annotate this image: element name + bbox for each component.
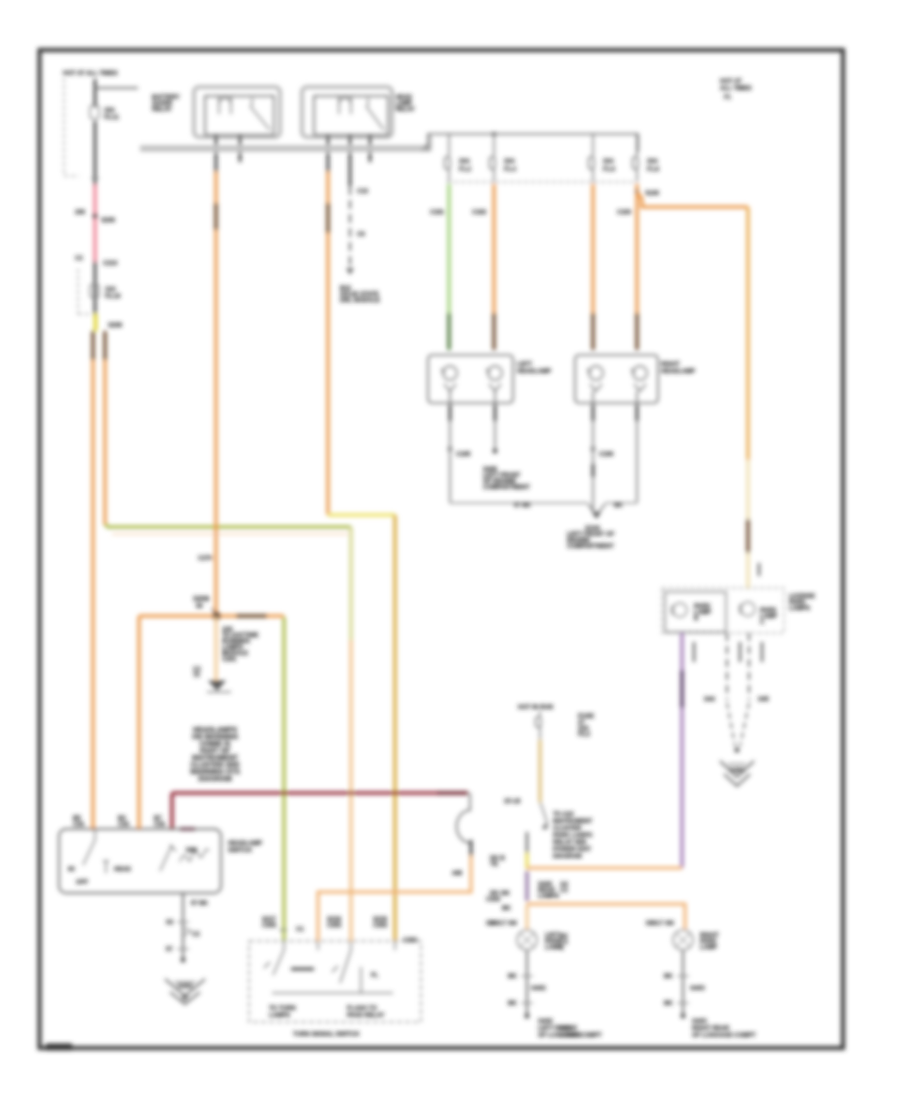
svg-text:57: 57: [166, 947, 173, 953]
headlamp switch label: [228, 841, 262, 854]
rear lamp bulb left: [671, 603, 687, 617]
svg-text:C13: C13: [357, 189, 369, 195]
yellow segment label: [490, 856, 505, 868]
svg-text:C2: C2: [75, 256, 83, 262]
right headlamp ground wire: [592, 391, 594, 512]
svg-text:06: 06: [196, 604, 203, 610]
wire green from fuse F3: [447, 184, 450, 313]
rear ground tick labels: [704, 697, 769, 703]
svg-text:HEADLAMPS: HEADLAMPS: [193, 727, 238, 734]
svg-text:C3: C3: [560, 888, 568, 894]
wire tan elbow to turn switch: [318, 856, 471, 941]
left headlamp ground dark segment: [449, 405, 452, 421]
wire yellow horizontal: [328, 513, 395, 516]
svg-text:INSTRUMENT: INSTRUMENT: [192, 755, 239, 762]
rear lamp top tick: [758, 563, 760, 576]
relay K1 coil: [219, 96, 231, 114]
relay K2 pin 85: [369, 135, 372, 162]
svg-text:C2b: C2b: [73, 822, 85, 828]
column wire into bulb: [526, 904, 529, 929]
right high ground wire: [636, 391, 638, 503]
wire tan right vertical to rear lamps: [746, 207, 749, 460]
svg-text:TO TURN: TO TURN: [269, 1006, 296, 1012]
relay K2 label: [395, 95, 415, 113]
relay K2 outer box: [302, 87, 392, 137]
ground G203 label: [178, 984, 193, 1002]
rear ground node: [735, 748, 740, 753]
switch ground node: [181, 958, 186, 963]
svg-text:F2.19: F2.19: [105, 294, 121, 300]
wire pink segment: [93, 185, 96, 261]
svg-text:4: 4: [560, 946, 564, 952]
turn switch arm left: [264, 950, 284, 975]
module text block right: [553, 812, 593, 860]
fuse F2: [90, 284, 99, 298]
module label text: [340, 286, 380, 304]
right park bulb: [673, 930, 693, 950]
svg-text:S44: S44: [704, 697, 715, 703]
svg-text:LEFT: LEFT: [517, 362, 532, 368]
svg-text:C202: C202: [373, 923, 388, 929]
svg-text:F1: F1: [724, 95, 732, 101]
turn signal switch box dashed: [249, 941, 421, 1022]
turn switch pin glyph 3: [373, 917, 388, 929]
wire tan branch to park lamps: [637, 192, 748, 207]
svg-text:BK: BK: [502, 906, 511, 912]
svg-text:DB/LT GN: DB/LT GN: [489, 921, 517, 927]
svg-text:C103: C103: [617, 210, 632, 216]
wire olive-tan vertical to turn switch: [350, 527, 353, 941]
rear ground merge: [727, 703, 749, 746]
right headlamp label: [661, 362, 695, 375]
fuse F3 label: [459, 159, 472, 173]
switch ground tick 2: [166, 947, 189, 953]
svg-text:PART OF: PART OF: [200, 748, 231, 755]
svg-text:C1: C1: [296, 927, 304, 933]
svg-text:C270: C270: [198, 556, 213, 562]
fuse box top rail: [428, 134, 638, 152]
ground run horizontal right: [605, 502, 637, 504]
svg-text:G401: G401: [730, 768, 745, 774]
fuse F7: [536, 711, 542, 740]
svg-text:S2: S2: [166, 920, 174, 926]
turn switch text right: [347, 1006, 384, 1019]
svg-text:G403: G403: [690, 986, 705, 992]
wire purple from rear lamp: [681, 633, 684, 868]
svg-text:LAMPS: LAMPS: [538, 894, 559, 900]
svg-text:C102: C102: [472, 210, 487, 216]
svg-text:BK: BK: [508, 974, 517, 980]
wire purple segment column: [525, 871, 528, 901]
wire tan from relay K1: [214, 172, 217, 616]
svg-text:15 LB: 15 LB: [504, 799, 521, 805]
rear lamp bulb left label: [694, 604, 711, 622]
svg-text:70: 70: [193, 673, 200, 679]
dashed junction box edge lower: [78, 269, 90, 314]
wire cream into lamp box: [746, 553, 749, 589]
wire faint tan shadow run: [112, 533, 348, 535]
rear lamp bulb right: [739, 602, 755, 616]
wire dark tan segment right branch: [103, 331, 106, 360]
svg-text:G403: G403: [692, 1019, 707, 1025]
left park ground wire: [526, 950, 528, 1016]
left margin text upper: [560, 882, 568, 894]
relay K2 contact arm: [366, 98, 384, 130]
svg-text:POWER DIST: POWER DIST: [553, 847, 591, 853]
fuse F2 label: [105, 287, 121, 300]
wire dark tan segment left branch: [91, 331, 94, 360]
svg-text:S208: S208: [108, 323, 123, 329]
wire red drop to switch: [170, 793, 173, 829]
right headlamp high bulb: [631, 366, 647, 391]
left headlamp low bulb: [441, 366, 457, 391]
right headlamp low bulb: [587, 366, 603, 391]
svg-text:RELAY SEE: RELAY SEE: [553, 840, 586, 846]
right park tick 2: [664, 1001, 689, 1007]
svg-text:LAMPS: LAMPS: [789, 606, 810, 612]
rear lamp box dashed: [662, 588, 784, 633]
relay K2 pin 30: [327, 135, 330, 172]
right headlamp box: [575, 355, 658, 403]
wire stub into column: [526, 832, 528, 853]
svg-text:G402: G402: [531, 986, 546, 992]
svg-text:DIM: DIM: [186, 848, 197, 854]
wire olive horizontal run: [105, 524, 351, 527]
headlamp switch box: [59, 829, 221, 893]
left park ground node: [525, 1014, 530, 1019]
wire gold from fuse F7: [539, 740, 542, 802]
wire battery feed: [94, 79, 97, 107]
wire tan branch vertical: [103, 360, 106, 525]
svg-text:G402: G402: [538, 1019, 553, 1025]
svg-text:20A: 20A: [603, 159, 615, 165]
svg-text:HOT AT: HOT AT: [720, 79, 742, 85]
relay K1 contact arm: [250, 98, 270, 130]
svg-text:BK: BK: [614, 503, 623, 509]
svg-text:LAMPS: LAMPS: [269, 1013, 290, 1019]
junction text block right: [222, 627, 258, 663]
switch ground tick 1: [166, 920, 189, 926]
label HOT AT ALL TIMES top-right: [720, 79, 752, 101]
svg-text:C2b: C2b: [154, 822, 166, 828]
svg-text:ALL TIMES: ALL TIMES: [720, 86, 752, 92]
right park ground label: [692, 1019, 756, 1039]
wire dark red segment: [437, 791, 468, 794]
rear lamp ground wire 1: [726, 633, 728, 700]
svg-text:C9: C9: [357, 232, 365, 238]
fuse F7 label: [578, 714, 594, 738]
svg-text:DB/LT GN: DB/LT GN: [646, 921, 674, 927]
right park tick 1: [664, 974, 689, 980]
svg-text:F2.2: F2.2: [578, 732, 591, 738]
junction box bus step: [428, 134, 432, 151]
left margin text lower: [560, 934, 568, 952]
svg-text:PARK LAMPS: PARK LAMPS: [553, 833, 592, 839]
fuse F6: [633, 134, 639, 182]
left park bulb label: [545, 933, 562, 951]
ground G401 symbol: [720, 761, 754, 786]
svg-text:HOT IN RUN: HOT IN RUN: [518, 705, 553, 711]
wire K1 dark tan segment: [214, 203, 217, 230]
svg-text:HEADLAMP: HEADLAMP: [517, 369, 551, 375]
switch position labels: [68, 867, 132, 886]
ground text block S406: [483, 467, 530, 491]
wire dark tan label segment: [236, 614, 267, 617]
svg-text:BK: BK: [664, 1001, 673, 1007]
dashed junction box edge upper: [64, 78, 79, 176]
switch pin label 1: [73, 816, 85, 828]
svg-text:B: B: [694, 616, 699, 622]
connector bracket at bus step: [423, 145, 429, 151]
svg-text:FL: FL: [371, 973, 379, 979]
turn switch pin glyph 1: [262, 917, 287, 930]
svg-text:RELAY: RELAY: [395, 107, 415, 113]
svg-text:C105: C105: [456, 452, 471, 458]
svg-text:ON WARNING: ON WARNING: [192, 734, 239, 741]
svg-text:10A: 10A: [105, 287, 117, 293]
bottom left text pair: [560, 1026, 581, 1039]
wire cream segment rear lamps: [746, 460, 749, 519]
svg-text:FLASH TO: FLASH TO: [347, 1006, 377, 1012]
wire K2 control end arrow: [346, 268, 354, 275]
switch pin label 2: [118, 816, 130, 828]
right high ground dark segment: [636, 405, 639, 421]
turn switch pin glyph 2: [327, 917, 342, 929]
left high ground wire: [494, 391, 496, 450]
svg-text:YE: YE: [490, 862, 498, 868]
rail junction node: [492, 132, 496, 136]
svg-text:BK: BK: [508, 1001, 517, 1007]
svg-text:60: 60: [68, 867, 75, 873]
wire tan horizontal at junction: [139, 614, 284, 617]
wire dark tan segment F6: [635, 313, 638, 350]
left headlamp high bulb: [486, 366, 502, 391]
svg-text:LAMPS: LAMPS: [560, 1033, 581, 1039]
wire dark green segment: [447, 313, 450, 350]
switch top mark: [180, 828, 195, 831]
wire below fuse F1: [94, 121, 97, 185]
svg-text:20A: 20A: [459, 159, 471, 165]
svg-text:TURN SIGNAL SWITCH: TURN SIGNAL SWITCH: [293, 1032, 359, 1038]
left headlamp label: [517, 362, 551, 375]
connector tick C1: [91, 177, 99, 179]
wire orange link to purple: [527, 867, 682, 870]
wire tan from relay K2: [326, 172, 329, 515]
fuse F4 label: [504, 159, 517, 173]
left high splice dot: [493, 449, 498, 454]
wire dark tan segment F4: [492, 313, 495, 350]
rear lamp stub 3: [761, 642, 763, 662]
fuse box dashed bottom: [447, 181, 637, 183]
right headlamp ground dark segment: [592, 405, 595, 421]
svg-text:HEADLAMP: HEADLAMP: [661, 369, 695, 375]
switch dimmer arm: [160, 845, 176, 871]
svg-text:F1.2: F1.2: [459, 167, 472, 173]
wire tan from fuse F6: [635, 184, 638, 313]
switch arm off-park-head: [83, 829, 109, 873]
turn switch flash bar: [361, 967, 379, 993]
relay K1 label: [152, 95, 180, 113]
svg-text:HEAD: HEAD: [114, 867, 132, 873]
svg-text:F1.8: F1.8: [647, 167, 660, 173]
svg-text:IP: IP: [182, 996, 188, 1002]
turn switch arm right: [332, 950, 351, 983]
junction box bus bar: [140, 145, 430, 152]
svg-text:F1.6: F1.6: [603, 167, 616, 173]
ground run horizontal left: [450, 502, 588, 504]
right ground tick: [591, 447, 595, 451]
wire below bracket dark: [470, 840, 473, 856]
left headlamp ground wire: [449, 391, 451, 503]
wire yellow segment column: [525, 853, 528, 869]
svg-text:C2b: C2b: [118, 822, 130, 828]
svg-text:HOT AT ALL TIMES: HOT AT ALL TIMES: [63, 71, 118, 77]
svg-text:C210: C210: [103, 261, 118, 267]
connector bracket C202: [457, 793, 471, 843]
right park bulb label: [700, 933, 719, 951]
switch rheostat: [180, 849, 209, 862]
svg-text:F1.4: F1.4: [504, 167, 517, 173]
left headlamp ground tick: [448, 447, 452, 451]
wire tan from fuse F5: [591, 184, 594, 313]
wire tan from fuse F4: [492, 184, 495, 313]
wire orange link to right lamp: [527, 904, 685, 929]
fuse F1: [90, 105, 99, 119]
svg-text:CLUSTER SEE: CLUSTER SEE: [190, 762, 239, 769]
svg-text:BK: BK: [664, 974, 673, 980]
relay K1 inner box: [205, 96, 274, 135]
svg-text:PASS RELAY: PASS RELAY: [347, 1013, 384, 1019]
svg-text:57 BK: 57 BK: [514, 503, 532, 509]
turn switch text left: [269, 1006, 296, 1019]
svg-text:DIAGRAM: DIAGRAM: [553, 854, 582, 860]
svg-text:S100: S100: [645, 191, 660, 197]
right ground dark segment 2: [592, 464, 595, 477]
wire stub end arrow: [207, 681, 231, 692]
relay K1 pin 30: [215, 135, 218, 172]
wire gold vertical to turn switch: [393, 515, 396, 941]
splice S2 label: [193, 596, 216, 614]
svg-text:G203: G203: [178, 984, 193, 990]
left park tick 2: [508, 1001, 533, 1007]
svg-text:C202: C202: [486, 897, 501, 903]
wire tap stub: [95, 87, 138, 89]
left park tick 1: [508, 974, 533, 980]
svg-text:57 BK: 57 BK: [191, 901, 209, 907]
wire dark brown segment rear lamps: [746, 519, 749, 553]
svg-text:C202: C202: [403, 938, 418, 944]
splice yellow S208: [94, 314, 98, 331]
wire K2 coil control dashes: [349, 186, 351, 268]
svg-text:LAMP: LAMP: [700, 945, 717, 951]
wire below pink: [94, 261, 97, 316]
svg-text:INSTRUMENT: INSTRUMENT: [553, 819, 593, 825]
right park ground node: [681, 1014, 686, 1019]
svg-text:RELAY: RELAY: [152, 107, 172, 113]
svg-text:C106: C106: [599, 452, 614, 458]
fuse F3: [445, 134, 451, 182]
ground G104 label: [567, 526, 615, 550]
wire tan drop to switch feed: [137, 616, 140, 829]
fuse F6 label: [647, 159, 660, 173]
svg-text:REAR: REAR: [560, 1026, 578, 1032]
left park ground label: [538, 1019, 602, 1039]
wire dark purple segment: [680, 670, 683, 708]
turn switch bus line: [272, 992, 393, 994]
left park bulb: [517, 930, 537, 950]
svg-text:C2: C2: [192, 932, 200, 938]
svg-text:HEADLAMP: HEADLAMP: [228, 841, 262, 847]
svg-text:15A: 15A: [104, 108, 116, 114]
ground G203 symbol: [165, 979, 205, 1004]
ground G104 merge: [588, 504, 605, 512]
switch ground wire: [182, 893, 184, 960]
frame corner mark: [46, 1044, 72, 1051]
splice S100: [635, 190, 639, 194]
fuse F4: [490, 134, 496, 182]
left headlamp box: [428, 355, 513, 403]
svg-text:20A: 20A: [504, 159, 516, 165]
switch ground jog: [183, 927, 191, 936]
wire stub below junction: [215, 616, 218, 681]
left high ground dark segment: [494, 405, 497, 421]
svg-text:SWITCH: SWITCH: [228, 848, 252, 854]
center text block chime: [190, 727, 240, 783]
svg-text:S45: S45: [758, 697, 769, 703]
svg-text:20A: 20A: [647, 159, 659, 165]
svg-text:CHIME IS: CHIME IS: [199, 741, 230, 748]
splice node S2 junction: [213, 613, 220, 620]
turn switch internal pins: [284, 941, 395, 950]
svg-text:C201: C201: [222, 657, 237, 663]
wire olive drop to turn switch: [283, 617, 286, 941]
right park ground wire: [682, 950, 684, 1016]
svg-text:RIGHT: RIGHT: [661, 362, 680, 368]
purple segment label left: [490, 891, 509, 897]
purple segment label right: [538, 882, 559, 900]
wire stub connector label: [193, 667, 201, 679]
wire tan to headlamp switch: [91, 360, 94, 829]
svg-text:C202: C202: [327, 923, 342, 929]
connector C210 label: [75, 256, 118, 267]
svg-text:C101: C101: [430, 210, 445, 216]
wire dark tan segment F5: [591, 313, 594, 350]
svg-text:WARNING SYS: WARNING SYS: [190, 769, 240, 776]
svg-text:COMPARTMENT: COMPARTMENT: [483, 485, 530, 491]
rear lamp ground wire 2: [748, 633, 750, 700]
svg-text:F2.11: F2.11: [104, 115, 120, 121]
wire K2 dark tan segment: [326, 203, 329, 233]
splice S206: [92, 213, 97, 218]
relay K2 inner box: [314, 96, 388, 135]
rear lamp stub 1: [693, 642, 695, 662]
svg-text:CLUSTER: CLUSTER: [553, 826, 582, 832]
rear lamp bulb right label: [760, 608, 777, 626]
svg-text:C202: C202: [262, 923, 277, 929]
relay K2 coil: [339, 96, 351, 114]
svg-text:206: 206: [75, 210, 86, 216]
relay K1 pin 85: [239, 135, 242, 162]
svg-text:DIAGRAM: DIAGRAM: [198, 776, 232, 783]
svg-text:S206: S206: [101, 218, 116, 224]
rear lamp inner box: [665, 592, 726, 632]
svg-text:COMPARTMENT: COMPARTMENT: [567, 544, 614, 550]
svg-text:TO A22: TO A22: [553, 812, 574, 818]
rear lamp stub 2: [739, 642, 741, 662]
svg-text:C: C: [760, 620, 765, 626]
fuse F5: [589, 134, 595, 182]
switch pin label 3: [154, 816, 166, 828]
